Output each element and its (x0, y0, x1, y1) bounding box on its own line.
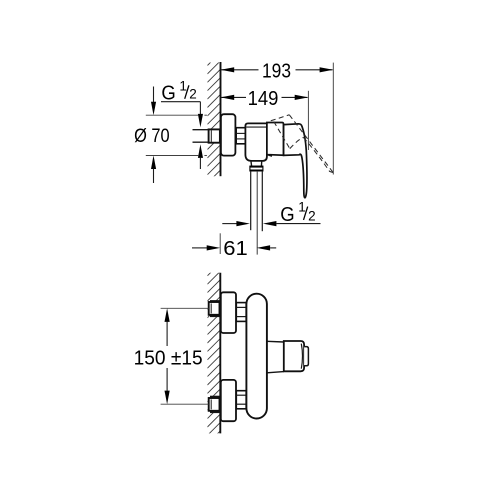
label G 1/2 (hose connection) (222, 199, 320, 226)
handle neck (front view) (267, 341, 284, 373)
hose centerline extension (256, 171, 258, 255)
dimension 61 (192, 233, 276, 260)
shower hose (251, 171, 263, 231)
svg-text:G: G (280, 204, 294, 226)
label G 1/2 (wall connection) (161, 78, 203, 169)
top supply union nut (front view) (209, 301, 221, 316)
top hex nut (front view) (236, 303, 246, 322)
lever handle raised (dashed outline) (271, 115, 333, 173)
dimension 150 ±15 (134, 308, 209, 404)
svg-text:2: 2 (308, 208, 316, 223)
hex connection nut (side view) (236, 128, 245, 144)
svg-text:Ø 70: Ø 70 (134, 125, 170, 147)
valve housing bottom diagonal (267, 155, 272, 157)
shower outlet neck (side view) (251, 161, 262, 166)
union nut on supply pipe (side view) (209, 129, 220, 142)
cartridge cap and lever handle (side view, rest position) (284, 124, 307, 198)
valve housing (side view) (267, 123, 284, 156)
wall line (side view) (220, 62, 222, 176)
dimension 193 (221, 59, 334, 174)
svg-text:61: 61 (223, 237, 248, 260)
svg-text:149: 149 (248, 87, 279, 110)
svg-text:1: 1 (298, 199, 306, 214)
dimension Ø 70 (134, 87, 207, 184)
handle knob face arc (front view) (301, 344, 302, 369)
escutcheon flange (side view) (221, 114, 236, 155)
wall hatching (side view) (207, 53, 220, 192)
wall hatching (front view) (207, 263, 220, 452)
dimension 149 (221, 87, 309, 150)
bottom hex nut (front view) (236, 391, 246, 409)
svg-text:1: 1 (179, 78, 187, 93)
handle knob (front view) (284, 341, 304, 371)
mixer body capsule (front view) (246, 294, 267, 419)
bottom S-union (front view) (221, 380, 236, 421)
wall line (front view) (219, 273, 221, 434)
svg-text:193: 193 (262, 59, 291, 82)
handle knob end cap (front view) (304, 347, 308, 366)
hose union nut (side view) (250, 166, 263, 171)
top S-union (front view) (221, 292, 236, 333)
svg-text:150 ±15: 150 ±15 (134, 346, 203, 369)
svg-text:2: 2 (189, 87, 197, 102)
mixer body (side view) (245, 123, 267, 160)
bottom supply union nut (front view) (209, 397, 221, 413)
supply pipe (side view) (193, 130, 210, 143)
